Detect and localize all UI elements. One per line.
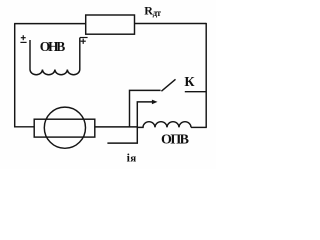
polarity mark ± (left) bbox=[20, 35, 26, 42]
wire top-right horizontal bbox=[135, 23, 207, 25]
svg-text:К: К bbox=[184, 75, 195, 90]
wire top-left horizontal bbox=[14, 23, 86, 25]
wire bottom-right segment bbox=[191, 126, 207, 128]
resistor Rдт bbox=[86, 15, 135, 34]
label ОНВ bbox=[40, 39, 66, 54]
field winding ОНВ scallops (bottom) bbox=[30, 70, 80, 75]
switch K right lead bbox=[185, 91, 206, 93]
polarity mark ∓ (right) bbox=[80, 38, 88, 44]
label К bbox=[184, 75, 195, 90]
field winding ОНВ left lead bbox=[29, 40, 31, 70]
wire left vertical and bottom-left segment bbox=[15, 24, 35, 127]
label ОПВ bbox=[161, 132, 189, 147]
brush box over armature bbox=[34, 119, 95, 137]
wire bottom-left to winding bbox=[95, 126, 138, 128]
field winding ОНВ right lead with top tick bbox=[79, 38, 81, 70]
svg-text:дт: дт bbox=[153, 8, 162, 18]
wire right vertical bbox=[205, 23, 207, 128]
svg-text:ОНВ: ОНВ bbox=[40, 39, 66, 54]
label Rдт bbox=[144, 4, 161, 18]
current arrow iя (bent path with arrowhead) bbox=[107, 102, 152, 143]
switch K branch wire (vertical from bottom wire + left lead) bbox=[130, 90, 161, 127]
motor armature circle bbox=[44, 107, 85, 148]
svg-text:ОПВ: ОПВ bbox=[161, 132, 189, 147]
switch K blade bbox=[161, 79, 175, 91]
inductor ОПВ (series winding) bbox=[137, 122, 191, 128]
svg-text:я: я bbox=[130, 153, 136, 165]
label iя bbox=[127, 151, 137, 165]
